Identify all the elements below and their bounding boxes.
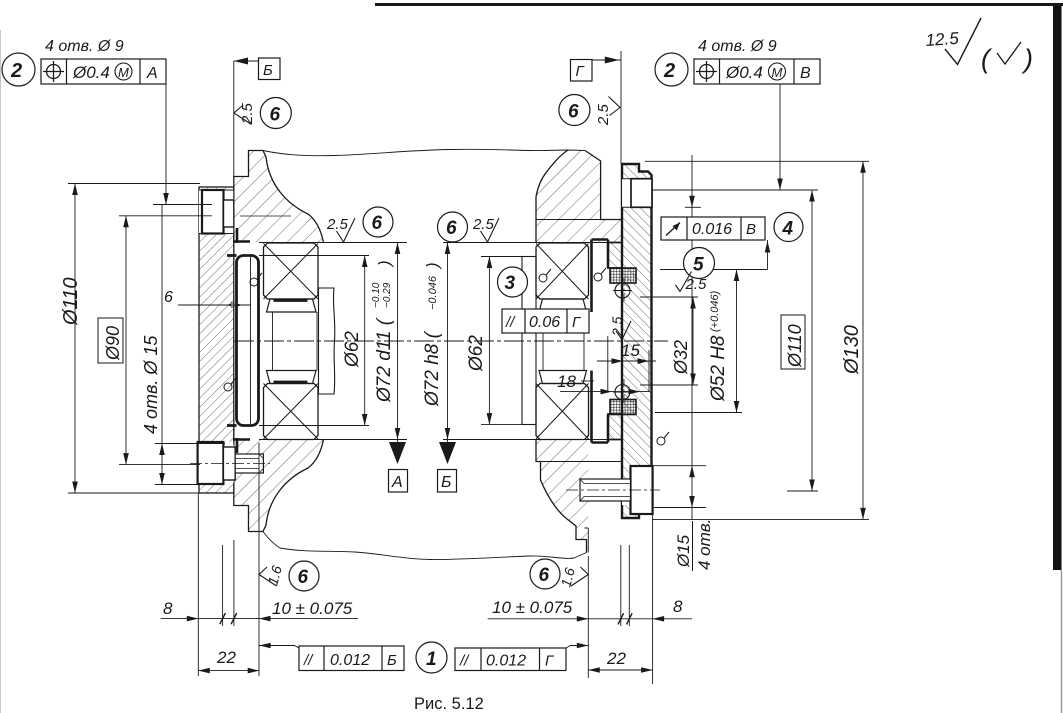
svg-text:0.012: 0.012 [330, 652, 370, 669]
frame 0016 leader vertical [767, 240, 769, 270]
left bearing X bottom [264, 384, 319, 440]
left spacer ring on shaft [319, 288, 335, 394]
dim 15 ext right [648, 350, 650, 392]
dim Ø52H8 ext bottom [655, 412, 742, 414]
dim 22 right arrows [588, 667, 652, 673]
right bottom bolt head [631, 466, 653, 514]
runout tolerance frame [661, 217, 765, 240]
svg-text:Ø72 d11 (: Ø72 d11 ( [374, 317, 395, 403]
dim Ø52H8 arrows [734, 270, 740, 413]
svg-text:8: 8 [673, 597, 683, 616]
svg-text:15: 15 [621, 341, 640, 360]
frame B2 leader right [779, 84, 781, 190]
svg-text:Б: Б [441, 474, 451, 491]
svg-text:2: 2 [663, 60, 675, 82]
svg-text:22: 22 [216, 648, 236, 667]
tolerance frame position left [41, 59, 166, 84]
svg-text:4 отв.: 4 отв. [695, 519, 714, 570]
dim Ø15 right top ext [685, 206, 701, 208]
dim Ø32 line [692, 297, 694, 385]
balloon 6 top left [260, 98, 291, 129]
svg-text:Ø72 h8 (: Ø72 h8 ( [422, 330, 443, 407]
housing lower-right boss outline [536, 440, 587, 553]
roughness check mid right [481, 218, 500, 242]
svg-text:(: ( [981, 44, 993, 74]
left seal thick body [237, 256, 259, 426]
left bottom bolt shank [235, 454, 263, 473]
svg-text:2.5: 2.5 [472, 216, 495, 233]
svg-text:2.5: 2.5 [609, 316, 625, 337]
svg-text:−0.046: −0.046 [427, 275, 439, 310]
housing left face line segments [233, 187, 235, 493]
right bearing X bottom [536, 384, 589, 440]
left bearing outer box bottom [264, 384, 319, 440]
datum B leader [234, 61, 259, 177]
section arrow A [389, 442, 406, 464]
svg-text:10 ± 0.075: 10 ± 0.075 [272, 599, 353, 618]
datum B flag box [259, 58, 281, 80]
dim Ø72h8 line with section B [447, 243, 449, 443]
balloon 6 bottom right [530, 559, 560, 589]
roughness check top right rotated [609, 97, 621, 116]
svg-text:Б: Б [387, 652, 397, 669]
svg-text:Ø110: Ø110 [785, 324, 805, 368]
dim 22 left line [198, 670, 259, 672]
dim Ø62 right line [488, 257, 490, 425]
left cap top hole edges [199, 190, 234, 234]
housing upper-left boss hatch [234, 151, 324, 243]
dim 4otv15 vertical line [161, 205, 163, 485]
section B box [438, 470, 457, 493]
runout symbol [666, 223, 680, 236]
datum G leader [592, 51, 621, 164]
dim Ø15 right hole ext lines [654, 466, 706, 508]
svg-text:6: 6 [568, 102, 579, 123]
svg-text:): ) [375, 260, 394, 268]
dim slash ticks left [220, 613, 237, 624]
datum G flag box [571, 60, 593, 82]
balloon 6 bottom left [289, 561, 319, 591]
dim Ø130 ext bottom [652, 518, 869, 520]
left bearing inner ring bottom [267, 371, 317, 384]
dim Ø62 left extension top [259, 255, 369, 257]
parallel tolerance frame mid [502, 309, 589, 333]
svg-text:5: 5 [693, 255, 704, 276]
dim Ø110 left extension top [68, 183, 200, 185]
svg-text:(+0.046): (+0.046) [709, 290, 721, 332]
svg-text:4 отв. Ø 9: 4 отв. Ø 9 [698, 38, 777, 55]
balloon 6 mid right [438, 212, 468, 242]
svg-text:Рис. 5.12: Рис. 5.12 [414, 695, 484, 713]
svg-text:0.06: 0.06 [529, 314, 560, 331]
balloon 2 right [655, 53, 688, 86]
dim Ø32 arrows [690, 297, 696, 385]
svg-text:0.012: 0.012 [486, 653, 526, 670]
dim 18 arrows [601, 389, 641, 395]
ext line left cap face bottom [197, 493, 199, 676]
frame par-G leader right [566, 646, 588, 649]
position symbol right [696, 61, 717, 82]
housing upper-right boss ledge line [536, 219, 601, 221]
balloon 3 [498, 267, 528, 297]
svg-text:2.5: 2.5 [685, 276, 708, 293]
circled M left [115, 63, 132, 80]
svg-text:−0.10: −0.10 [371, 282, 382, 308]
right cap bottom hole white band [622, 479, 652, 505]
left top screw head [202, 190, 224, 234]
dim 18 leader [560, 391, 650, 393]
balloon 6 mid left [363, 207, 393, 237]
right cap spigot bottom outline [608, 414, 622, 440]
right bearing inner ring top [539, 299, 587, 312]
left cap flange hatch [199, 187, 234, 493]
retaining locknut bottom crosshatched [610, 400, 636, 415]
svg-text:8: 8 [163, 599, 173, 618]
dim Ø32 ext top [640, 296, 698, 298]
dim Ø72d11 line with section A [397, 243, 399, 443]
ext line housing right face bottom [587, 556, 589, 678]
left bearing inner ring top [267, 299, 317, 312]
dim 4otv15 ext bottom hole bottom [155, 484, 200, 486]
right cap top hole edges [622, 179, 652, 208]
dim Ø110 right arrows [809, 190, 815, 491]
dim 8 left arrow [187, 616, 199, 622]
left bearing inner ring bottom shoulder [274, 381, 308, 383]
parallel frame bottom left [299, 646, 404, 671]
ext line bearing face left bottom [258, 443, 260, 676]
position symbol left [43, 61, 64, 82]
right bottom bolt shank [580, 479, 631, 501]
svg-text:0.016: 0.016 [692, 221, 732, 238]
dim Ø62 left arrows [362, 256, 368, 426]
retaining washer plate thick lines [592, 240, 609, 443]
svg-text:Ø32: Ø32 [671, 340, 691, 375]
right cap spigot top outline [608, 243, 622, 269]
dim 22 right line [588, 669, 652, 671]
housing upper-right boss hatch [536, 150, 622, 243]
roughness check mid left [337, 218, 356, 242]
dim line 8-10 left bottom [161, 618, 358, 620]
small o-mark right cap [657, 432, 669, 445]
housing top break wavy line [263, 149, 585, 155]
housing lower-right boss hatch [536, 440, 588, 553]
dim Ø90 line [125, 216, 127, 465]
ext line x233.9 bottom [233, 540, 235, 626]
housing upper-right boss outline [536, 150, 622, 243]
right bearing X top [536, 244, 589, 300]
housing lower-right ledge line [536, 461, 622, 463]
dim 8 right arrow [653, 616, 665, 622]
right bottom bolt centerline [566, 489, 660, 491]
dim Ø110 left line [74, 184, 76, 494]
roughness check mid right5 [676, 272, 692, 292]
bore line left top [259, 242, 407, 244]
dim Ø52H8 line [736, 270, 738, 413]
bore line right top with extension [443, 242, 622, 244]
left bottom bolt washer [223, 447, 235, 480]
svg-text:6: 6 [539, 565, 550, 586]
dim 6 leader and arrows [178, 304, 251, 306]
bore line right bottom with extension [443, 439, 622, 441]
dim Ø110 left arrows [72, 184, 78, 494]
svg-text:2: 2 [10, 60, 22, 82]
centerline main axis [234, 340, 668, 342]
svg-text:2.5: 2.5 [239, 102, 256, 125]
svg-text:10 ± 0.075: 10 ± 0.075 [492, 598, 573, 617]
svg-text:В: В [746, 221, 756, 238]
sheet right thin edge [1061, 570, 1063, 713]
svg-text:Ø90: Ø90 [103, 326, 123, 361]
right cap flange hatch [622, 164, 652, 518]
dim Ø52H8 ext top [660, 269, 768, 271]
dim line 10-8 right bottom [488, 618, 692, 620]
svg-text:−0.29: −0.29 [382, 282, 393, 308]
left bearing bore side lines [273, 312, 318, 371]
right bearing inner ring bottom [539, 371, 587, 384]
svg-text:6: 6 [164, 289, 173, 306]
retaining screw axis dashdot [623, 278, 625, 404]
roughness check washer rotated [616, 321, 631, 340]
left bearing inner ring top shoulder [274, 300, 308, 302]
left seal inner line [250, 257, 252, 424]
svg-text:Б: Б [263, 62, 273, 79]
svg-text:M: M [772, 65, 783, 80]
fraction line Ø15 4otv right [692, 521, 694, 571]
balloon 4 [774, 213, 803, 242]
right cap spigot bottom hatch [608, 414, 622, 440]
balloon 1 [416, 642, 447, 673]
ext line washer face mid [607, 336, 609, 392]
svg-text:2.5: 2.5 [326, 216, 349, 233]
dim 4otv15 arrows bottom hole [159, 444, 165, 485]
dim Ø62 left line [364, 256, 366, 426]
left bearing outer box top [264, 243, 319, 299]
balloon 6 top right [559, 95, 590, 126]
left seal top flange lines [227, 256, 237, 426]
left top screw washer step [224, 200, 234, 227]
svg-text:6: 6 [270, 105, 281, 126]
left bottom bolt head [198, 442, 224, 484]
roughness check bottom right rotated [571, 567, 588, 586]
section A box [389, 470, 408, 493]
left cap flange outline [199, 187, 234, 493]
dim 4otv15 hole ext line [153, 204, 212, 206]
right cap flange outline [622, 164, 652, 518]
dim Ø130 arrows [860, 161, 866, 519]
roughness check top left rotated [234, 106, 252, 125]
parallel frame bottom right [455, 648, 566, 671]
housing lower-left boss outline [234, 440, 324, 532]
svg-text:В: В [800, 65, 811, 82]
svg-text:Ø62: Ø62 [342, 331, 363, 368]
small o-mark left inner [250, 273, 262, 286]
balloon 2 left [2, 53, 35, 86]
svg-text:6: 6 [446, 218, 457, 239]
svg-text:3: 3 [505, 273, 516, 294]
box around dim Ø90 [98, 318, 123, 363]
roughness 12.5 big check [945, 18, 981, 65]
retaining locknut top crosshatched [610, 268, 636, 283]
svg-text:A: A [146, 65, 158, 82]
left bearing X top [264, 244, 319, 300]
dim Ø90 extension top [119, 215, 212, 217]
dim 10 left arrow [259, 616, 271, 622]
circled M right [769, 63, 786, 80]
sheet top border line [375, 3, 1063, 6]
dim Ø110 right line [811, 190, 813, 491]
right spacer ring [522, 257, 536, 425]
dim Ø110 right ext bottom [787, 490, 818, 492]
ext line x222.6 bottom [222, 545, 224, 626]
dim 18 text tail [581, 380, 594, 382]
svg-text:4 отв. Ø 15: 4 отв. Ø 15 [141, 335, 161, 434]
left seal bottom retainer [233, 438, 250, 453]
ext line right cap face bottom [652, 514, 654, 684]
svg-text:1: 1 [426, 649, 437, 670]
svg-text:): ) [423, 262, 442, 270]
dim Ø130 ext top [645, 160, 869, 162]
dim 15 line [597, 360, 656, 362]
dim Ø90 arrows [123, 216, 129, 465]
roughness check bottom left rotated [259, 567, 277, 586]
dim Ø15 right top arrow [689, 196, 695, 208]
right bottom bolt thread lines [580, 479, 631, 501]
dim Ø110 right ext top [652, 189, 818, 191]
right cap top hole white band [622, 179, 652, 208]
left seal top retainer [233, 228, 250, 243]
retaining screw bottom symbol [613, 383, 632, 402]
housing lower-left boss hatch [234, 440, 324, 532]
left cap bottom hole white band [199, 442, 234, 484]
svg-text:Ø52 H8: Ø52 H8 [708, 335, 729, 402]
svg-text:2.5: 2.5 [595, 103, 612, 126]
small o-mark right washer [594, 268, 606, 281]
roughness bracket check small [997, 42, 1021, 64]
svg-text:1.6: 1.6 [557, 566, 578, 589]
dim Ø32 ext bottom [640, 384, 698, 386]
left cap top hole white band [199, 190, 234, 234]
dim 4otv15 ext bottom hole top [155, 443, 225, 445]
small o-mark right bearing [539, 269, 551, 282]
right cap spigot top hatch [608, 243, 622, 269]
dim 10 right arrow [577, 616, 589, 622]
svg-text:4 отв. Ø 9: 4 отв. Ø 9 [45, 38, 124, 55]
dim 4otv15 leader line from frame [165, 84, 167, 205]
dim 15 arrows [612, 358, 650, 364]
sheet right border bar [1053, 6, 1062, 570]
right cap top hole counterbore [631, 179, 652, 208]
dim Ø15 right hole arrows [689, 466, 695, 508]
svg-text:Ø0.4: Ø0.4 [72, 63, 110, 82]
section arrow B [439, 442, 456, 464]
housing bottom break wavy line [263, 532, 587, 560]
box around dim Ø110 right [781, 315, 805, 369]
dim slash ticks right [618, 613, 632, 624]
svg-text:M: M [118, 65, 129, 80]
svg-text:12.5: 12.5 [925, 29, 960, 50]
dim 22 left arrows [198, 668, 259, 674]
housing internal cast line upper-left [240, 215, 291, 217]
svg-text:4: 4 [782, 219, 794, 240]
frame par-B leader left [259, 646, 299, 649]
dim Ø62 right extension bottom [481, 424, 522, 426]
ext line x629.3 bottom [628, 545, 630, 626]
frame 0016 leader arrow [765, 241, 771, 253]
dim Ø62 right arrows [487, 257, 493, 425]
sheet left thin edge [0, 30, 2, 713]
svg-text:): ) [1021, 44, 1033, 74]
dim Ø90 extension bottom [119, 464, 200, 466]
svg-text:Ø110: Ø110 [60, 278, 82, 326]
housing upper-left boss outline [234, 151, 324, 243]
housing lower-right notch lines [585, 528, 589, 553]
right bearing outer box top [536, 243, 589, 299]
small o-mark left seal [224, 378, 236, 391]
retaining screw top symbol [613, 281, 632, 300]
dim Ø62 right extension top [481, 256, 522, 258]
left bottom bolt centerline [190, 463, 270, 465]
ext line x620.8 bottom [620, 545, 622, 626]
dim Ø110 left extension bottom [68, 492, 200, 494]
svg-text:6: 6 [298, 567, 309, 588]
svg-text:22: 22 [606, 649, 626, 668]
dim 4otv15 leader arrow [163, 193, 169, 205]
svg-text:Ø130: Ø130 [841, 325, 863, 375]
svg-text:6: 6 [372, 213, 383, 234]
dim Ø130 line [862, 161, 864, 519]
balloon 5 [684, 248, 715, 279]
svg-text:18: 18 [557, 372, 576, 391]
bore line left bottom [259, 439, 407, 441]
svg-text:1.6: 1.6 [264, 564, 285, 587]
tolerance frame position right [694, 59, 820, 84]
dim Ø62 left extension bottom [259, 425, 369, 427]
svg-text:А: А [391, 474, 403, 491]
right bearing bore side lines [543, 312, 584, 371]
svg-text:Ø15: Ø15 [674, 534, 693, 568]
svg-text:Ø0.4: Ø0.4 [725, 63, 763, 82]
left bottom bolt thread lines [235, 454, 263, 473]
dim Ø15 right vertical line [691, 155, 693, 519]
right bearing outer box bottom [536, 384, 589, 440]
svg-text:Ø62: Ø62 [466, 335, 487, 372]
